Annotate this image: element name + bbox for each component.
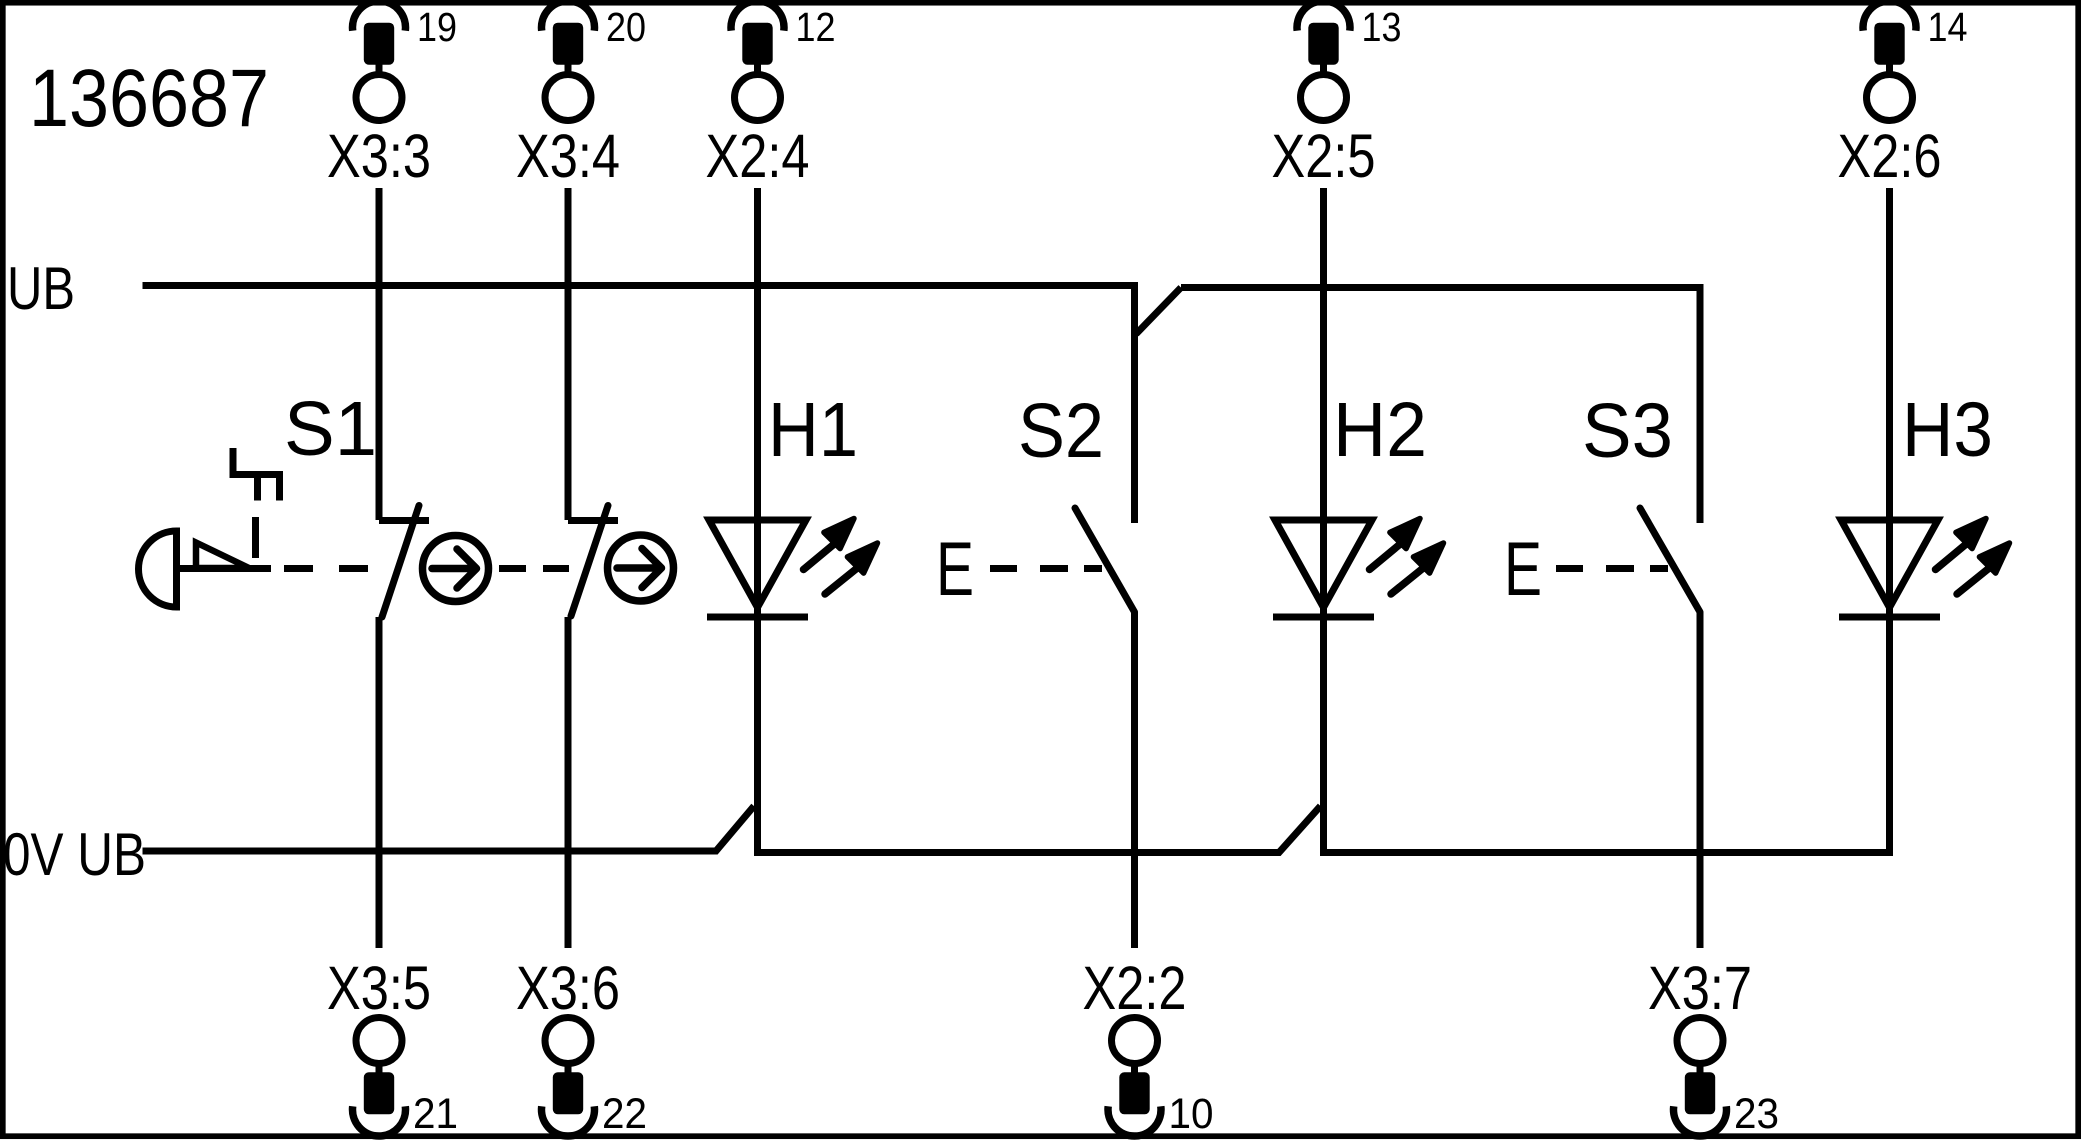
S1 contact 1 moving blade (NC): [382, 506, 419, 618]
S3 actuator dashed link: [1556, 565, 1668, 572]
S1 detent dashed link: [252, 517, 259, 558]
LED H3 emission arrow 2: [1957, 567, 1991, 594]
wire X2:4 down to H1 anode: [754, 188, 761, 617]
S1 actuator dashed link dashes (middle group): [499, 565, 569, 572]
connector terminal X2:5 (pin 13): [1272, 1, 1402, 190]
connector terminal X3:5 (pin 21): [327, 954, 458, 1138]
terminal arc hood X2:2: [1108, 1106, 1161, 1136]
connector terminal X2:2 (pin 10): [1083, 954, 1214, 1138]
LED H2 triangle: [1275, 520, 1372, 608]
wire UB rail left segment + S2 branch drop: [143, 286, 1135, 524]
LED H3 emission arrow 1: [1936, 543, 1969, 570]
wire X3:3 down to S1 contact 1: [376, 188, 383, 520]
S2 actuator dashed link: [990, 565, 1102, 572]
svg-text:UB: UB: [7, 255, 75, 322]
terminal ring X3:7: [1677, 1018, 1723, 1064]
terminal plug body X2:4: [742, 23, 772, 65]
terminal stem X3:4: [565, 62, 572, 74]
S1 actuator plunger line: [178, 565, 271, 572]
terminal ring X2:4: [735, 75, 781, 121]
terminal stem X3:6: [565, 1063, 572, 1075]
svg-text:S2: S2: [1018, 388, 1104, 474]
svg-text:10: 10: [1169, 1090, 1214, 1138]
terminal arc hood X3:3: [353, 1, 406, 31]
wire UB rail jog diagonal at S2: [1136, 288, 1181, 335]
terminal plug body X3:7: [1685, 1072, 1715, 1114]
S1 mushroom head actuator: [139, 531, 177, 607]
wire S3 contact down to X3:7: [1697, 612, 1704, 948]
terminal arc hood X3:4: [542, 1, 595, 31]
svg-text:E: E: [936, 527, 974, 612]
terminal plug body X3:4: [553, 23, 583, 65]
wire H3 cathode drop + 0V UB rail right segment: [1320, 617, 1890, 853]
terminal plug body X2:6: [1874, 23, 1904, 65]
svg-text:H2: H2: [1333, 387, 1427, 473]
svg-text:136687: 136687: [29, 53, 269, 144]
svg-text:S3: S3: [1582, 388, 1673, 474]
terminal stem X2:2: [1131, 1063, 1138, 1075]
connector terminal X2:4 (pin 12): [706, 1, 836, 190]
S1 positive-drive arrow 1: [432, 549, 477, 588]
wire X3:4 down to S1 contact 2: [565, 188, 572, 520]
terminal plug body X3:3: [364, 23, 394, 65]
LED H3 cathode bar: [1839, 614, 1940, 621]
connector terminal X3:7 (pin 23): [1648, 954, 1779, 1138]
terminal stem X3:5: [376, 1063, 383, 1075]
S1 contact 2 fixed contact tick: [568, 517, 618, 524]
svg-text:X3:4: X3:4: [516, 122, 620, 190]
S1 positive-drive symbol circle 2: [608, 535, 674, 601]
svg-text:14: 14: [1928, 4, 1968, 50]
terminal ring X3:6: [545, 1018, 591, 1064]
svg-text:E: E: [1504, 527, 1542, 612]
wire X2:6 down to H3 anode: [1886, 188, 1893, 620]
svg-text:23: 23: [1734, 1090, 1779, 1138]
terminal ring X3:4: [545, 75, 591, 121]
terminal ring X2:5: [1301, 75, 1347, 121]
wire 0V UB rail left segment with jog diagonal up to H1: [143, 806, 755, 851]
S1 detent latch prong 2: [276, 475, 283, 501]
svg-text:H3: H3: [1902, 387, 1993, 473]
S1 detent latch prong 1: [254, 475, 261, 501]
terminal ring X2:2: [1112, 1018, 1158, 1064]
terminal stem X3:7: [1697, 1063, 1704, 1075]
terminal plug body X2:2: [1119, 1072, 1149, 1114]
LED H1 emission arrow 2: [825, 567, 859, 594]
S1 contact 1 fixed contact tick: [379, 517, 429, 524]
terminal ring X3:5: [356, 1018, 402, 1064]
terminal arc hood X3:7: [1674, 1106, 1727, 1136]
terminal stem X2:5: [1320, 62, 1327, 74]
LED H2 cathode bar: [1273, 614, 1374, 621]
terminal ring X3:3: [356, 75, 402, 121]
terminal plug body X3:6: [553, 1072, 583, 1114]
svg-text:H1: H1: [768, 387, 858, 473]
LED H2 emission arrow 1: [1370, 543, 1403, 570]
LED H1 emission arrow 1: [804, 543, 837, 570]
svg-text:X2:4: X2:4: [706, 122, 810, 190]
wire S2 contact down to X2:2: [1131, 612, 1138, 948]
svg-text:20: 20: [606, 4, 646, 50]
connector terminal X3:3 (pin 19): [327, 1, 457, 190]
S1 actuator triangle: [196, 543, 249, 569]
S1 actuator dashed link dashes (left group): [284, 565, 368, 572]
svg-text:X3:3: X3:3: [327, 122, 431, 190]
svg-text:12: 12: [796, 4, 836, 50]
svg-text:0V UB: 0V UB: [3, 821, 146, 888]
LED H1 triangle: [709, 520, 806, 608]
svg-text:X3:5: X3:5: [327, 954, 431, 1022]
svg-text:22: 22: [602, 1090, 647, 1138]
terminal plug body X3:5: [364, 1072, 394, 1114]
LED H2 emission arrow 2: [1391, 567, 1425, 594]
svg-text:X3:7: X3:7: [1648, 954, 1752, 1022]
S1 positive-drive arrow 2: [617, 549, 662, 588]
svg-text:X3:6: X3:6: [516, 954, 620, 1022]
terminal arc hood X2:4: [731, 1, 784, 31]
svg-text:13: 13: [1362, 4, 1402, 50]
wire S1 contact 1 down to X3:5: [376, 617, 383, 948]
terminal stem X2:4: [754, 62, 761, 74]
terminal arc hood X3:6: [542, 1106, 595, 1136]
LED H1 cathode bar: [707, 614, 808, 621]
terminal arc hood X3:5: [353, 1106, 406, 1136]
wire H1 cathode drop + 0V UB rail middle segment with jog diagonal up to H2: [758, 617, 1321, 853]
terminal plug body X2:5: [1308, 23, 1338, 65]
terminal arc hood X2:5: [1297, 1, 1350, 31]
terminal ring X2:6: [1867, 75, 1913, 121]
svg-text:S1: S1: [284, 386, 377, 472]
svg-text:21: 21: [413, 1090, 458, 1138]
S3 moving blade (NO): [1640, 508, 1700, 612]
S1 detent latch symbol: [233, 448, 283, 475]
svg-text:X2:5: X2:5: [1272, 122, 1376, 190]
svg-text:X2:2: X2:2: [1083, 954, 1187, 1022]
svg-text:X2:6: X2:6: [1838, 122, 1942, 190]
connector terminal X3:4 (pin 20): [516, 1, 646, 190]
S1 contact 2 moving blade (NC): [571, 506, 608, 617]
S1 positive-drive symbol circle 1: [423, 536, 489, 602]
wire S1 contact 2 down to X3:6: [565, 617, 572, 948]
connector terminal X3:6 (pin 22): [516, 954, 647, 1138]
S2 moving blade (NO): [1075, 508, 1135, 612]
connector terminal X2:6 (pin 14): [1838, 1, 1968, 190]
wire UB rail right segment + S3 branch drop: [1181, 288, 1700, 524]
wire X2:5 down to H2 and 0V UB: [1320, 188, 1327, 853]
svg-text:19: 19: [417, 4, 457, 50]
terminal stem X3:3: [376, 62, 383, 74]
terminal arc hood X2:6: [1863, 1, 1916, 31]
LED H3 triangle: [1841, 520, 1938, 608]
terminal stem X2:6: [1886, 62, 1893, 74]
